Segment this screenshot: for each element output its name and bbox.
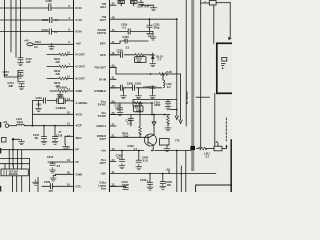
ground (57, 92, 63, 97)
capacitor C211 (27, 40, 42, 49)
svg-text:4.7: 4.7 (134, 147, 138, 151)
connector P201 (1, 169, 28, 176)
wire video out row (110, 136, 148, 138)
capacitor C243 (136, 151, 148, 163)
node +9V terminal (3, 120, 9, 127)
wire stub (196, 96, 210, 98)
wire (29, 158, 31, 192)
node +18V (166, 167, 171, 173)
wire vertical bus V4 (20, 0, 22, 58)
scan mark (0, 148, 1, 154)
wire FM OUT row (110, 67, 159, 74)
svg-text:FF: FF (76, 148, 80, 152)
node junction (149, 18, 151, 20)
wire (180, 166, 182, 192)
svg-text:SYNC: SYNC (98, 114, 107, 118)
svg-text:SYNC: SYNC (98, 103, 107, 107)
capacitor C273 (3, 70, 24, 77)
svg-text:220P: 220P (154, 103, 160, 107)
wire (8, 150, 10, 169)
wire (17, 150, 19, 169)
node junction (180, 173, 182, 175)
node junction (162, 73, 164, 75)
dashed wire (225, 118, 227, 141)
svg-text:+18: +18 (166, 167, 171, 171)
ground (117, 110, 123, 115)
ground (164, 145, 170, 152)
wire (185, 151, 187, 193)
svg-text:4R3: 4R3 (137, 59, 142, 63)
wire +8V long row (110, 173, 216, 175)
svg-text:33P: 33P (4, 73, 9, 77)
sub box bottom right (196, 185, 232, 192)
capacitor C251 (147, 19, 160, 31)
node junction (51, 43, 53, 45)
pin stubs right (110, 5, 116, 186)
ground (50, 174, 56, 181)
svg-text:CTL: CTL (76, 184, 82, 188)
svg-text:0.1: 0.1 (123, 26, 127, 30)
capacitor C262 (120, 81, 133, 90)
svg-text:10uH: 10uH (17, 120, 23, 124)
shield bus (191, 0, 194, 171)
capacitor C234 (116, 35, 148, 50)
capacitor C119 (154, 100, 171, 108)
wire Vin row (110, 114, 170, 116)
ground (150, 61, 156, 66)
svg-text:C216: C216 (36, 96, 43, 100)
wire B-in row (0, 31, 74, 33)
pin numbers left (67, 4, 71, 186)
svg-text:0.01: 0.01 (116, 106, 122, 110)
capacitor C245 (116, 151, 125, 162)
inductor L301 (163, 74, 172, 89)
svg-text:3.3: 3.3 (34, 45, 38, 49)
wire (21, 150, 23, 169)
wire (4, 164, 6, 169)
ground (121, 88, 127, 99)
capacitor C219 (56, 134, 74, 145)
svg-text:2.7: 2.7 (158, 57, 162, 61)
wire B-out row (47, 78, 74, 80)
wire pin25 row (33, 113, 74, 115)
capacitor C210 (42, 28, 59, 34)
svg-text:220: 220 (56, 60, 61, 64)
svg-text:GND: GND (76, 89, 84, 93)
svg-text:8.2K: 8.2K (167, 70, 173, 74)
node junction (151, 150, 153, 152)
node junction (176, 18, 178, 20)
node junction (54, 125, 56, 127)
scan mark (0, 122, 1, 128)
svg-text:FM OUT: FM OUT (95, 65, 107, 69)
svg-text:VCO: VCO (76, 112, 83, 116)
wire cap row (110, 87, 161, 89)
wire FF row long (0, 149, 74, 151)
svg-text:KEY: KEY (100, 42, 106, 46)
wire to connector B (180, 74, 182, 120)
node +B supply (215, 140, 219, 146)
trimmer RT2 (131, 1, 138, 6)
svg-text:1000P: 1000P (122, 183, 130, 187)
node junction (149, 173, 151, 175)
svg-text:0.1: 0.1 (48, 2, 52, 6)
wire (167, 73, 181, 75)
inductor L311 (204, 146, 222, 158)
wire SAND row (116, 31, 153, 33)
svg-text:FF: FF (76, 160, 80, 164)
wire (21, 176, 23, 192)
svg-text:G OUT: G OUT (76, 65, 86, 69)
capacitor C236 (117, 49, 124, 58)
svg-text:GND: GND (76, 172, 84, 176)
ground (160, 184, 166, 189)
capacitor C248 (126, 115, 134, 127)
capacitor C216 (36, 96, 46, 106)
wire sync row (110, 102, 152, 104)
node junction (176, 150, 178, 152)
diode D230 (151, 53, 164, 61)
wire G-out row (47, 66, 74, 68)
resistor R232 (135, 53, 153, 63)
capacitor C214 (110, 180, 129, 190)
svg-text:C230: C230 (140, 178, 147, 182)
svg-text:0.1: 0.1 (54, 30, 58, 34)
resistor R201 (122, 103, 141, 139)
filter T201 (160, 139, 170, 146)
ground (50, 168, 56, 173)
wire to connector A (176, 19, 178, 116)
svg-text:C220: C220 (44, 180, 51, 184)
ground (150, 88, 156, 99)
svg-text:100: 100 (167, 183, 172, 187)
capacitor C272 (18, 57, 32, 64)
ground (19, 84, 25, 89)
svg-text:+8V: +8V (76, 42, 81, 46)
svg-text:B IN: B IN (76, 30, 82, 34)
svg-text:C218: C218 (56, 134, 63, 138)
capacitor C250 (121, 23, 130, 34)
wire (37, 178, 39, 193)
ground (119, 163, 125, 168)
pin labels left inside (76, 6, 89, 188)
pin numbers right (112, 2, 115, 187)
inductor L201 (9, 117, 24, 126)
pin labels right inside (94, 2, 107, 191)
svg-text:AFC: AFC (100, 53, 107, 57)
svg-text:33P: 33P (9, 84, 14, 88)
svg-text:G IN: G IN (76, 18, 82, 22)
svg-text:+9V: +9V (24, 39, 29, 43)
svg-text:OUT: OUT (100, 18, 107, 22)
resistor R203 (167, 115, 170, 126)
ground (147, 185, 153, 190)
svg-text:0.1: 0.1 (55, 18, 59, 22)
capacitor C274 (8, 81, 25, 88)
wire (214, 93, 216, 146)
svg-text:100TH: 100TH (97, 31, 106, 35)
resistor R235 (159, 70, 172, 75)
op-amp U1 IC left edge (73, 0, 75, 192)
op-amp U1 IC right edge (109, 0, 111, 192)
node junction (139, 102, 141, 104)
wire stub node (170, 109, 178, 111)
ground (151, 5, 157, 10)
wire +B out (222, 145, 228, 149)
svg-text:C234: C234 (123, 35, 130, 39)
svg-text:C267: C267 (144, 85, 151, 89)
capacitor C270 (47, 155, 61, 168)
svg-text:470: 470 (49, 189, 54, 192)
svg-text:2B: 2B (35, 136, 38, 140)
capacitor C209 (42, 17, 59, 22)
svg-text:B OUT: B OUT (76, 77, 86, 81)
resistor R213 (54, 77, 67, 88)
ground (41, 139, 47, 144)
ground (150, 32, 156, 41)
wire (17, 71, 19, 83)
ground (165, 126, 171, 131)
scan mark (0, 186, 1, 192)
node junction (162, 173, 164, 175)
svg-text:C217: C217 (33, 133, 40, 137)
node junction (32, 125, 34, 127)
ground (63, 144, 69, 149)
wire YM OUT long (110, 18, 177, 20)
resistor R233 (134, 102, 144, 113)
wire G-in row (0, 19, 74, 21)
capacitor C246 (160, 174, 172, 187)
svg-text:SEC: SEC (76, 136, 83, 140)
resistor R310 (197, 147, 215, 150)
wire gnd row (50, 90, 74, 92)
svg-text:NOISE 04: NOISE 04 (185, 92, 189, 105)
wire R-out row (47, 54, 74, 56)
node solder junction (190, 146, 195, 150)
capacitor C217 (33, 126, 47, 139)
ground (136, 164, 142, 169)
wire lower row (0, 157, 30, 159)
svg-text:OUT: OUT (100, 137, 107, 141)
svg-text:33P: 33P (26, 60, 31, 64)
svg-text:3.3: 3.3 (57, 164, 61, 168)
node junction (121, 150, 123, 152)
svg-text:C210: C210 (42, 28, 49, 32)
wire +9V row (24, 125, 74, 127)
wire (151, 103, 153, 115)
wire FF2 row (48, 161, 74, 163)
svg-text:4.7: 4.7 (117, 156, 121, 160)
capacitor C220 (42, 180, 74, 193)
svg-text:4.43MHz: 4.43MHz (56, 106, 67, 110)
wire lower row 2 (0, 163, 30, 165)
node junction (12, 149, 14, 151)
diode D204 (152, 114, 156, 136)
svg-text:X201: X201 (58, 94, 65, 98)
svg-text:2.2: 2.2 (206, 154, 210, 158)
connector arrow C (228, 37, 231, 41)
wire (213, 5, 215, 43)
wire (12, 176, 14, 192)
svg-text:ADJ: ADJ (100, 5, 106, 9)
svg-text:220p: 220p (154, 26, 160, 30)
scan edge strip (230, 140, 232, 192)
svg-text:1M2: 1M2 (136, 108, 142, 112)
svg-text:+8V: +8V (101, 172, 106, 176)
node junction (151, 102, 153, 104)
svg-text:C209: C209 (42, 18, 49, 22)
ground (147, 31, 153, 36)
wire stub (13, 139, 20, 166)
ground (165, 104, 171, 109)
svg-text:220: 220 (56, 72, 61, 76)
svg-text:CkPC1: CkPC1 (96, 124, 106, 128)
svg-text:Out: Out (101, 187, 106, 191)
node junction (151, 114, 153, 116)
svg-text:3.58MHz: 3.58MHz (94, 89, 107, 93)
ground (33, 180, 39, 185)
wire vertical bus V3 (15, 0, 17, 57)
capacitor C267 (144, 85, 156, 89)
crystal X301 (201, 1, 231, 5)
capacitor C237 (137, 0, 150, 9)
wire branch (185, 0, 187, 126)
svg-text:4.43MHz: 4.43MHz (76, 101, 89, 105)
wire FF row right (110, 150, 193, 152)
wire R-in row (0, 7, 74, 9)
crystal X201 (56, 94, 74, 110)
svg-text:R OUT: R OUT (76, 53, 86, 57)
wire +8V row (33, 43, 74, 45)
ground (18, 60, 24, 65)
wire gnd row (56, 173, 74, 175)
svg-text:OUT: OUT (100, 161, 107, 165)
node junction (43, 125, 45, 127)
wire (141, 3, 154, 6)
connector arrow B (179, 120, 182, 124)
svg-text:+9V: +9V (3, 120, 8, 124)
node junction (12, 138, 14, 140)
wire (229, 3, 231, 37)
svg-text:R IN: R IN (76, 6, 82, 10)
wire AFC row (110, 54, 135, 56)
resistor R212 (54, 65, 67, 76)
svg-text:775: 775 (175, 139, 180, 143)
svg-text:VCP: VCP (76, 124, 82, 128)
terminal block (2, 138, 7, 143)
ground (19, 139, 25, 144)
svg-text:2.2: 2.2 (167, 85, 171, 89)
wire box top (133, 100, 177, 107)
wire (176, 151, 178, 193)
svg-text:338K: 338K (123, 135, 129, 139)
capacitor C118 (115, 103, 123, 110)
ground (36, 101, 42, 112)
svg-text:0.01: 0.01 (143, 159, 149, 163)
ground (136, 88, 142, 99)
wire bus line (200, 0, 202, 149)
wire crystal branch (33, 101, 57, 126)
svg-text:C211: C211 (35, 40, 42, 44)
wire (16, 176, 18, 192)
trimmer RT1 (118, 1, 125, 6)
svg-text:0.01: 0.01 (37, 103, 43, 107)
ground (49, 44, 55, 49)
svg-text:C263: C263 (135, 81, 142, 85)
resistor R211 (54, 53, 67, 64)
svg-text:C236: C236 (117, 49, 124, 53)
connector detail (222, 58, 227, 70)
svg-text:3.3: 3.3 (126, 46, 130, 50)
wire vertical bus V2 (10, 0, 12, 52)
svg-text:+Vo: +Vo (101, 149, 107, 153)
svg-text:3.3: 3.3 (127, 121, 131, 125)
connector arrow A (175, 116, 178, 120)
ground (18, 73, 24, 78)
node junction (164, 114, 166, 116)
capacitor C208 (46, 0, 53, 11)
module M1 shielded box (217, 43, 234, 93)
svg-text:HI IN: HI IN (99, 77, 106, 81)
transistor Q201 (145, 134, 157, 151)
ground (52, 139, 58, 144)
capacitor C218 (52, 126, 62, 139)
node junction (150, 73, 152, 75)
capacitor C230 (140, 174, 153, 185)
svg-text:C270: C270 (47, 155, 54, 159)
node junction (138, 150, 140, 152)
wire vertical bus V1 (5, 0, 19, 77)
capacitor C263 (133, 81, 142, 90)
resistor R214 (57, 86, 68, 93)
capacitor C242 label (128, 144, 138, 151)
wire (12, 164, 14, 169)
